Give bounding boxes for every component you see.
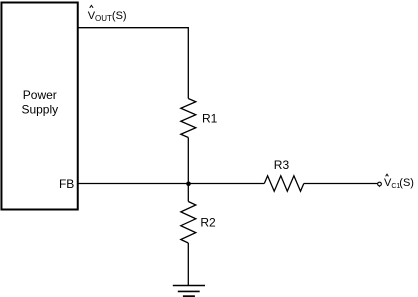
svg-text:FB: FB: [59, 177, 74, 191]
svg-text:R2: R2: [200, 216, 216, 230]
svg-text:Power: Power: [23, 88, 57, 102]
svg-text:Supply: Supply: [21, 103, 58, 117]
svg-text:VC1(S): VC1(S): [384, 177, 414, 190]
svg-text:R3: R3: [274, 158, 290, 172]
svg-text:R1: R1: [202, 112, 218, 126]
